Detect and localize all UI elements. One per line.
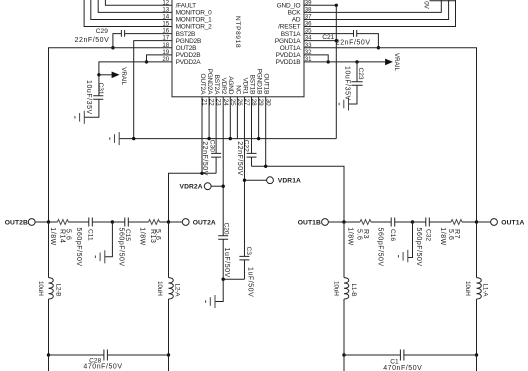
svg-text:10uH: 10uH xyxy=(37,281,44,296)
svg-text:OUT2A: OUT2A xyxy=(193,219,216,226)
ground symbol at C31 xyxy=(75,111,84,124)
pin 19 PVDD2B xyxy=(147,49,201,62)
node junction pin21/C30 xyxy=(200,172,203,175)
node junction PVDD2B/PVDD2A xyxy=(145,60,148,63)
pin 30 OUT1B xyxy=(263,74,272,167)
svg-text:560pF/50V: 560pF/50V xyxy=(117,228,124,267)
resistor R14 5.6 1/8W xyxy=(49,220,89,246)
svg-text:560pF/50V: 560pF/50V xyxy=(415,228,422,267)
port OUT2A xyxy=(169,219,216,227)
svg-text:C20: C20 xyxy=(223,223,230,235)
capacitor C20 1uF/50V xyxy=(218,223,230,280)
svg-text:R7: R7 xyxy=(453,229,460,239)
svg-text:26: 26 xyxy=(236,99,243,107)
capacitor C29 22nF/50V xyxy=(75,28,125,48)
svg-text:29: 29 xyxy=(257,99,264,107)
svg-text:25: 25 xyxy=(229,99,236,107)
svg-text:VDR2A: VDR2A xyxy=(180,184,203,191)
svg-text:VRAIL: VRAIL xyxy=(120,67,127,85)
node junction GND_IO drop xyxy=(335,4,338,7)
ground symbol at rail left end xyxy=(110,132,119,145)
svg-text:470nF/50V: 470nF/50V xyxy=(83,364,122,371)
svg-text:10uF/35V: 10uF/35V xyxy=(343,66,350,101)
svg-text:32: 32 xyxy=(305,49,312,56)
node junction AGND at rail xyxy=(229,137,232,140)
svg-text:L2-A: L2-A xyxy=(173,284,180,298)
pin 22 PGND2A xyxy=(206,69,215,139)
svg-text:38: 38 xyxy=(305,6,312,13)
pin 20 PVDD2A xyxy=(99,56,201,75)
svg-text:R14: R14 xyxy=(59,229,66,244)
svg-text:16: 16 xyxy=(162,28,169,35)
svg-text:12: 12 xyxy=(162,0,169,6)
svg-text:BCK: BCK xyxy=(288,10,302,17)
svg-text:BST2A: BST2A xyxy=(213,75,220,95)
power flag VRAIL left xyxy=(99,67,127,85)
svg-text:PVDD2A: PVDD2A xyxy=(176,59,202,66)
wire to ground below zobel left xyxy=(105,222,113,257)
pin 32 PVDD1A xyxy=(276,49,329,62)
pin 13 MONITOR_0 xyxy=(98,0,212,17)
svg-text:23: 23 xyxy=(215,99,222,107)
capacitor C22 22nF/50V xyxy=(236,140,256,176)
node junction C28 rail right xyxy=(167,353,170,356)
wire OUT2A jog to L2-A column xyxy=(169,173,217,222)
node junction zobel mid right xyxy=(411,220,414,223)
pin 17 PGND2B xyxy=(134,35,201,139)
wire to ground below C20 xyxy=(215,279,223,301)
svg-text:PVDD2B: PVDD2B xyxy=(176,52,201,59)
node junction C20/C3 ground xyxy=(222,278,225,281)
svg-text:C11: C11 xyxy=(86,229,93,241)
wire OUT1B jog to L1-B column xyxy=(252,166,345,222)
pin 37 AD xyxy=(292,0,449,24)
svg-text:AD: AD xyxy=(292,17,301,24)
svg-text:OUT1A: OUT1A xyxy=(280,45,302,52)
pin 28 BST1B wire xyxy=(248,75,257,154)
node junction PGND2B at rail xyxy=(132,137,135,140)
ground symbol at C20/C3 xyxy=(206,295,215,308)
wire GND_IO down to ground rail xyxy=(335,5,337,138)
svg-text:24: 24 xyxy=(222,99,229,107)
wire to R14 xyxy=(49,221,58,223)
svg-text:C23: C23 xyxy=(357,68,364,80)
pin 31 PVDD1B xyxy=(276,56,386,66)
svg-text:5.6: 5.6 xyxy=(154,229,161,240)
pin 25 AGND xyxy=(227,76,236,138)
pin 39 GND_IO xyxy=(277,0,337,10)
svg-text:10uH: 10uH xyxy=(464,281,471,296)
port OUT2B xyxy=(5,219,49,227)
node junction VDR1A tap xyxy=(243,179,246,182)
pin 26 NC xyxy=(234,85,243,138)
svg-text:1/8W: 1/8W xyxy=(49,227,56,246)
pin 36 /RESET xyxy=(278,0,455,31)
ground symbol at zobel right xyxy=(398,250,407,262)
svg-text:VDR1: VDR1 xyxy=(241,78,248,95)
node junction zobel mid left xyxy=(111,220,114,223)
pin 35 BST1A wire xyxy=(281,28,354,38)
svg-text:5.6: 5.6 xyxy=(355,229,362,240)
svg-text:PGND2B: PGND2B xyxy=(176,38,202,45)
svg-text:L2-B: L2-B xyxy=(55,284,62,297)
svg-text:PGND1A: PGND1A xyxy=(275,38,301,45)
svg-text:VDR2: VDR2 xyxy=(220,78,227,95)
node junction pin30/C22 xyxy=(264,165,267,168)
svg-text:OUT2A: OUT2A xyxy=(199,74,206,96)
svg-text:/FAULT: /FAULT xyxy=(176,3,197,10)
svg-text:NC: NC xyxy=(234,85,241,94)
node junction VDR2A tap xyxy=(222,185,225,188)
node junction PVDD1A/PVDD1B xyxy=(327,60,330,63)
svg-text:22nF/50V: 22nF/50V xyxy=(75,37,110,44)
svg-text:MONITOR_1: MONITOR_1 xyxy=(176,17,213,24)
node junction L2-A top xyxy=(167,220,170,223)
port VDR2A xyxy=(180,183,224,191)
capacitor C21 22nF/50V xyxy=(322,30,378,48)
svg-text:27: 27 xyxy=(243,99,250,107)
svg-text:31: 31 xyxy=(305,56,312,63)
svg-text:1uF/50V: 1uF/50V xyxy=(223,248,230,278)
svg-text:18: 18 xyxy=(162,42,169,49)
svg-text:PVDD1B: PVDD1B xyxy=(276,59,301,66)
capacitor C32 560pF/50V xyxy=(413,218,452,267)
svg-text:OUT2B: OUT2B xyxy=(176,45,197,52)
pin 15 MONITOR_2 xyxy=(84,0,212,31)
svg-text:1/8W: 1/8W xyxy=(439,227,446,246)
capacitor C16 560pF/50V xyxy=(376,218,412,267)
svg-text:NTP8918: NTP8918 xyxy=(234,16,241,48)
svg-text:5.6: 5.6 xyxy=(65,229,72,240)
node junction PGND1B at rail xyxy=(257,137,260,140)
svg-text:BST1A: BST1A xyxy=(281,31,301,38)
svg-text:MONITOR_0: MONITOR_0 xyxy=(176,10,213,17)
ground symbol at zobel left xyxy=(95,250,104,263)
resistor R13 5.6 1/8W xyxy=(138,220,168,246)
capacitor C30 22nF/50V xyxy=(201,140,221,176)
svg-text:22nF/50V: 22nF/50V xyxy=(201,141,208,176)
pin 12 /FAULT xyxy=(105,0,196,10)
svg-text:/RESET: /RESET xyxy=(278,24,301,31)
inductor L1-A 10uH xyxy=(464,222,489,355)
svg-text:39: 39 xyxy=(305,0,312,6)
svg-text:OUT1B: OUT1B xyxy=(298,219,321,226)
svg-text:1/8W: 1/8W xyxy=(138,227,145,246)
svg-text:10uH: 10uH xyxy=(156,281,163,296)
svg-text:36: 36 xyxy=(305,21,312,28)
capacitor C11 560pF/50V xyxy=(75,218,113,267)
pin 23 BST2A wire xyxy=(213,75,222,154)
capacitor C3 1uF/50V xyxy=(223,247,254,298)
node junction C1 rail right xyxy=(475,353,478,356)
wire 0V bus stub cut at top edge xyxy=(430,0,457,2)
ground symbol at C23 xyxy=(339,98,348,111)
capacitor C1 470nF/50V xyxy=(383,350,422,371)
svg-text:15: 15 xyxy=(162,21,169,28)
pin 18 OUT2B wire (long left vertical) xyxy=(49,42,197,222)
pin 14 MONITOR_1 xyxy=(91,0,212,24)
svg-text:OUT1A: OUT1A xyxy=(501,219,524,226)
node junction OUT2B/L2-B xyxy=(47,220,50,223)
wire to R3 xyxy=(344,221,360,223)
svg-text:L1-B: L1-B xyxy=(350,284,357,297)
ground rail AGND xyxy=(119,138,336,140)
inductor L2-B 10uH xyxy=(37,222,62,355)
capacitor C31 10uF/35V xyxy=(84,75,104,118)
svg-text:22nF/50V: 22nF/50V xyxy=(236,141,243,176)
svg-text:560pF/50V: 560pF/50V xyxy=(75,228,82,267)
wire stubs to bottom edge right xyxy=(344,355,477,371)
node junction C1 rail left xyxy=(342,353,345,356)
node junction C29 to OUT2B xyxy=(111,46,114,49)
node junction VRAIL left xyxy=(97,73,100,76)
node junction PGND1A to GND_IO vertical xyxy=(335,39,338,42)
wire stubs to bottom edge left xyxy=(49,355,169,371)
svg-text:13: 13 xyxy=(162,6,169,13)
inductor L1-B 10uH xyxy=(332,222,357,355)
svg-text:VRAIL: VRAIL xyxy=(393,53,400,71)
node junction L1-A top xyxy=(475,220,478,223)
svg-text:19: 19 xyxy=(162,49,169,56)
svg-text:37: 37 xyxy=(305,14,312,21)
svg-text:C31: C31 xyxy=(97,83,104,95)
svg-text:C16: C16 xyxy=(389,229,396,241)
svg-text:34: 34 xyxy=(305,35,312,42)
svg-text:5.6: 5.6 xyxy=(447,229,454,240)
pin 16 BST2B wire xyxy=(125,28,196,38)
power flag VRAIL right xyxy=(385,53,400,71)
svg-text:C32: C32 xyxy=(425,229,432,241)
pin 27 VDR1 xyxy=(241,78,250,257)
svg-text:R3: R3 xyxy=(362,229,369,239)
pin 33 OUT1A wire (long right vertical) xyxy=(280,42,477,222)
svg-text:C30: C30 xyxy=(209,140,216,152)
svg-text:GND_IO: GND_IO xyxy=(277,3,301,10)
svg-text:BST1B: BST1B xyxy=(248,75,255,95)
svg-text:20: 20 xyxy=(162,56,169,63)
svg-text:C29: C29 xyxy=(96,28,108,35)
svg-text:1uF/50V: 1uF/50V xyxy=(247,267,254,297)
svg-text:10uH: 10uH xyxy=(332,281,339,296)
svg-text:33: 33 xyxy=(305,42,312,49)
svg-text:14: 14 xyxy=(162,14,169,21)
svg-text:PGND1B: PGND1B xyxy=(256,69,263,95)
wire to ground below zobel right xyxy=(408,222,413,258)
wire bottom rail left xyxy=(49,354,169,356)
port VDR1A xyxy=(244,177,301,185)
node junction PGND2A at rail xyxy=(207,137,210,140)
svg-text:OUT2B: OUT2B xyxy=(5,219,28,226)
pin 29 PGND1B xyxy=(256,69,265,139)
resistor R3 5.6 1/8W xyxy=(346,220,391,246)
node junction C28 rail left xyxy=(47,353,50,356)
svg-text:21: 21 xyxy=(201,99,208,107)
pin 34 PGND1A xyxy=(275,35,336,45)
pin 21 OUT2A xyxy=(199,74,208,174)
svg-text:AGND: AGND xyxy=(227,76,234,94)
node junction C23 tap xyxy=(355,60,358,63)
svg-text:10uF/35V: 10uF/35V xyxy=(85,80,92,115)
svg-text:560pF/50V: 560pF/50V xyxy=(376,228,383,267)
capacitor C23 10uF/35V xyxy=(343,62,364,104)
svg-text:PGND2A: PGND2A xyxy=(206,69,213,95)
svg-text:C21: C21 xyxy=(322,34,334,41)
svg-text:22nF/50V: 22nF/50V xyxy=(336,39,371,46)
inductor L2-A 10uH xyxy=(156,222,181,355)
node junction C21 to OUT1A xyxy=(377,46,380,49)
node junction L1-B top xyxy=(342,220,345,223)
svg-text:0V: 0V xyxy=(422,1,429,9)
svg-text:L1-A: L1-A xyxy=(481,284,488,298)
svg-text:22: 22 xyxy=(208,99,215,107)
svg-text:28: 28 xyxy=(250,99,257,107)
svg-text:1/8W: 1/8W xyxy=(346,227,353,246)
svg-text:35: 35 xyxy=(305,28,312,35)
pin 38 BCK xyxy=(288,0,442,17)
svg-text:C3: C3 xyxy=(245,247,252,256)
IC U1 NTP8918 body xyxy=(172,0,304,97)
svg-text:30: 30 xyxy=(264,99,271,107)
capacitor C28 470nF/50V xyxy=(83,350,122,371)
pin 24 VDR2 xyxy=(220,78,229,236)
resistor R7 5.6 1/8W xyxy=(439,220,476,246)
capacitor C15 560pF/50V xyxy=(112,218,148,267)
svg-text:MONITOR_2: MONITOR_2 xyxy=(176,24,213,31)
wire bottom rail right xyxy=(344,354,477,356)
svg-text:PVDD1A: PVDD1A xyxy=(276,52,302,59)
svg-text:BST2B: BST2B xyxy=(176,31,196,38)
svg-text:17: 17 xyxy=(162,35,169,42)
svg-text:OUT1B: OUT1B xyxy=(263,74,270,95)
port OUT1B xyxy=(298,219,344,227)
svg-text:470nF/50V: 470nF/50V xyxy=(383,365,422,371)
port OUT1A xyxy=(477,219,525,227)
svg-text:VDR1A: VDR1A xyxy=(278,178,301,185)
